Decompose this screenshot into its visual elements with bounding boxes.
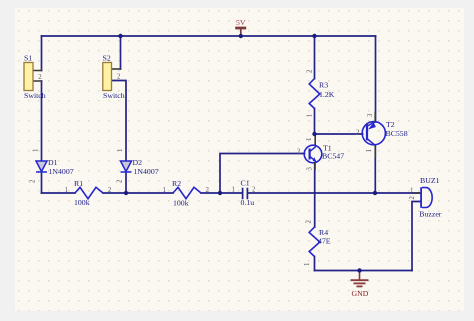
switch S1 pin stubs bbox=[33, 71, 42, 82]
wire top rail 5V bbox=[42, 35, 376, 37]
svg-text:2: 2 bbox=[117, 179, 124, 183]
svg-text:1: 1 bbox=[410, 188, 413, 195]
buzzer BUZ1 symbol bbox=[420, 187, 432, 208]
node 5V/rail bbox=[239, 34, 243, 38]
svg-text:2: 2 bbox=[108, 187, 112, 194]
junction node dots bbox=[118, 34, 377, 273]
node T1 base/bus bbox=[218, 191, 222, 195]
wire bus segment R2 to C1 bbox=[201, 192, 242, 194]
node T2 collector/bus bbox=[373, 191, 377, 195]
wire bottom ground run bbox=[315, 270, 413, 272]
transistor T2 (BC558 PNP) bbox=[362, 122, 385, 146]
wire R3 bottom lead to node A bbox=[314, 109, 316, 135]
svg-text:47E: 47E bbox=[318, 236, 331, 245]
node R3/rail bbox=[312, 34, 316, 38]
node A R3/T1/T2 bbox=[312, 132, 316, 136]
wire node A horizontal R3/T1/T2 base bbox=[315, 133, 363, 135]
wire T1 collector to node A bbox=[314, 134, 316, 146]
svg-text:1: 1 bbox=[117, 149, 124, 152]
switch S2 pin stubs bbox=[112, 68, 121, 70]
svg-text:S1: S1 bbox=[24, 54, 32, 63]
resistor R2 zigzag bbox=[173, 187, 201, 198]
svg-text:T2: T2 bbox=[386, 120, 395, 129]
transistor T1 (BC547 NPN) bbox=[304, 145, 322, 163]
svg-text:Switch: Switch bbox=[103, 91, 125, 100]
buzzer pin1 stub bbox=[414, 192, 421, 194]
ground symbol GND bbox=[351, 271, 369, 298]
wire S2 top vertical bbox=[120, 36, 122, 69]
capacitor C1 plates bbox=[243, 188, 248, 200]
svg-text:C1: C1 bbox=[241, 178, 250, 187]
svg-text:1: 1 bbox=[33, 149, 40, 152]
svg-text:100k: 100k bbox=[173, 198, 189, 207]
node S2/rail bbox=[118, 34, 122, 38]
svg-text:5V: 5V bbox=[236, 18, 246, 27]
svg-text:1: 1 bbox=[232, 187, 235, 194]
svg-text:1N4007: 1N4007 bbox=[134, 167, 159, 176]
svg-text:Switch: Switch bbox=[24, 91, 46, 100]
svg-text:R1: R1 bbox=[74, 179, 83, 188]
switch S2 body bbox=[103, 63, 112, 91]
svg-text:GND: GND bbox=[352, 289, 369, 298]
svg-text:R3: R3 bbox=[319, 81, 328, 90]
svg-text:2: 2 bbox=[252, 187, 256, 194]
switch S1 body bbox=[24, 63, 33, 91]
svg-text:S2: S2 bbox=[103, 54, 111, 63]
svg-text:1.2K: 1.2K bbox=[319, 90, 335, 99]
svg-text:1: 1 bbox=[307, 114, 314, 117]
svg-text:BC558: BC558 bbox=[386, 129, 408, 138]
wire R4 bottom lead bbox=[314, 257, 316, 271]
svg-text:2: 2 bbox=[356, 130, 360, 137]
svg-text:0.1u: 0.1u bbox=[241, 198, 255, 207]
svg-text:2: 2 bbox=[306, 220, 313, 224]
svg-text:2: 2 bbox=[409, 196, 416, 200]
svg-text:2: 2 bbox=[206, 187, 210, 194]
svg-text:1: 1 bbox=[65, 187, 68, 194]
transistor T2 emitter pin top bbox=[374, 112, 376, 122]
wire S1 bottom vertical to D1 bbox=[41, 81, 43, 161]
svg-text:1: 1 bbox=[304, 263, 311, 266]
wire S2 bottom to D2 bbox=[112, 81, 127, 162]
svg-text:1N4007: 1N4007 bbox=[49, 167, 74, 176]
svg-text:3: 3 bbox=[367, 113, 374, 117]
wire R3 top lead bbox=[314, 36, 316, 79]
svg-text:100k: 100k bbox=[74, 198, 90, 207]
svg-text:Buzzer: Buzzer bbox=[419, 209, 441, 218]
svg-text:3: 3 bbox=[307, 167, 314, 171]
resistor R4 zigzag bbox=[309, 227, 320, 257]
diode D2 symbol bbox=[121, 161, 132, 172]
node D2/bus bbox=[124, 191, 128, 195]
svg-text:2: 2 bbox=[30, 179, 37, 183]
wire bus segment R1 to R2 bbox=[103, 192, 173, 194]
wire D1 to bottom bus bbox=[41, 172, 43, 193]
wire S1 top vertical bbox=[41, 36, 43, 71]
svg-text:2: 2 bbox=[117, 74, 121, 81]
wire T2 collector down to bus bbox=[374, 146, 376, 193]
wire bus segment D1 to R1 bbox=[42, 192, 76, 194]
node GND/bottom bbox=[357, 268, 361, 272]
svg-text:1: 1 bbox=[306, 138, 313, 141]
resistor R3 zigzag bbox=[309, 79, 320, 109]
wire T1 emitter down to R4 bbox=[314, 163, 316, 227]
svg-text:1: 1 bbox=[366, 149, 373, 152]
svg-text:1: 1 bbox=[163, 187, 166, 194]
svg-text:BC547: BC547 bbox=[322, 152, 344, 161]
wire buzzer pin2 riser bbox=[412, 202, 421, 271]
svg-text:R2: R2 bbox=[172, 179, 181, 188]
wire D2 to bus junction bbox=[125, 172, 127, 193]
transistor T1 emitter pin bbox=[314, 162, 316, 170]
svg-text:D2: D2 bbox=[133, 158, 143, 167]
svg-text:D1: D1 bbox=[48, 158, 58, 167]
svg-text:BUZ1: BUZ1 bbox=[420, 176, 440, 185]
wire T1 base branch bbox=[220, 154, 305, 194]
diode D1 symbol bbox=[36, 161, 47, 172]
wire T2 emitter from rail bbox=[375, 36, 377, 122]
svg-text:2: 2 bbox=[297, 149, 301, 156]
svg-text:2: 2 bbox=[38, 74, 42, 81]
svg-text:2: 2 bbox=[307, 69, 314, 73]
resistor R1 zigzag bbox=[75, 187, 103, 198]
power symbol 5V bbox=[235, 18, 246, 35]
wire bus segment C1 to buzzer bbox=[248, 192, 421, 194]
transistor T2 collector pin bottom bbox=[374, 145, 376, 158]
